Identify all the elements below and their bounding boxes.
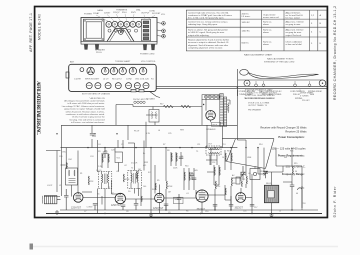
svg-text:VOL: VOL [117,158,121,160]
svg-text:Check calibration: Check calibration [286,41,303,44]
alignment table grid [186,10,326,51]
tube V5 top [130,21,136,27]
resistor R20 [102,154,103,162]
svg-text:to B minus with 1000 ohm per v: to B minus with 1000 ohm per volt meter. [68,102,106,105]
resistor R1 [66,163,68,169]
resistor R17 [176,153,177,161]
svg-text:completing alignment of the re: completing alignment of the receiver. [188,46,223,49]
svg-text:C17: C17 [254,207,257,209]
svg-text:L5: L5 [279,211,281,213]
svg-text:OSC: OSC [62,152,67,154]
socket V6 bottom [139,67,146,74]
power transformer (top view) [84,19,105,41]
wire: second bottom bus [60,209,318,211]
socket V2 bottom [102,67,109,74]
svg-text:T2: T2 [131,168,133,170]
svg-text:C16: C16 [243,211,246,213]
svg-text:22K: 22K [90,181,94,183]
socket V1 bottom [87,67,94,74]
wire: horizontal connectors [44,97,302,210]
control shafts [157,22,165,39]
svg-text:5: 5 [311,43,313,45]
chassis foot 2 [95,44,99,50]
svg-text:10: 10 [222,157,224,159]
svg-text:STRINGING OF THE DIAL CORD: STRINGING OF THE DIAL CORD [264,61,295,64]
svg-text:R12: R12 [260,171,263,173]
svg-text:Line voltage 117 AC. Volume co: Line voltage 117 AC. Volume control maxi… [62,105,105,108]
svg-text:C4: C4 [98,144,100,146]
svg-text:2.2M: 2.2M [98,166,103,168]
svg-text:1,2: 1,2 [311,15,315,17]
svg-text:12SA7GT: 12SA7GT [71,206,82,209]
power unit iron core block [264,185,278,202]
capacitor C10 [229,196,234,210]
svg-text:1400 KC: 1400 KC [242,31,251,33]
svg-text:SOCKET: SOCKET [152,13,161,15]
svg-text:alignment. Seal all trimmers w: alignment. Seal all trimmers with wax af… [188,44,228,47]
svg-text:100: 100 [143,186,146,188]
svg-text:R5: R5 [157,180,159,182]
svg-text:RADIO ALIGNMENT CHART: RADIO ALIGNMENT CHART [244,54,273,57]
tube V3 12SQ7 det-avc [155,193,164,202]
svg-text:35Z5: 35Z5 [131,12,137,14]
svg-text:* AS NOTED ON: * AS NOTED ON [89,97,105,100]
trimmer C row bottom [86,83,149,89]
svg-text:12SQ7GT: 12SQ7GT [153,208,164,210]
gang condenser bracket [107,29,134,42]
oscillator coil L2 [66,168,78,185]
svg-text:12SA7: 12SA7 [93,12,100,15]
svg-text:C3 R2: C3 R2 [126,79,133,81]
chassis apron edge [81,42,157,45]
variable capacitor C2 [263,171,268,178]
tube V3 top [118,21,124,27]
svg-text:TRIMMERS: TRIMMERS [116,9,128,11]
tube V4 top [124,21,130,27]
svg-text:output while adjusting.: output while adjusting. [188,34,210,37]
svg-text:R13: R13 [227,151,230,153]
svg-text:TO GANG: TO GANG [146,98,155,101]
scan artifact bottom strip [30,246,338,248]
pulley right [319,80,326,87]
svg-text:C: C [320,32,322,34]
svg-text:Power Consumption:: Power Consumption: [278,135,304,139]
svg-text:C9: C9 [168,212,170,214]
chassis foot 4 [151,44,155,50]
svg-text:C2: C2 [111,193,113,195]
IF transformer T2 [128,171,142,189]
svg-text:increase in output is obtained: increase in output is obtained. Recheck … [188,41,229,44]
svg-text:35L6: 35L6 [122,12,127,14]
svg-text:D: D [320,43,322,45]
chassis foot 1 [84,44,88,50]
capacitor C13 [103,148,108,158]
speaker notes text [245,89,278,112]
svg-text:OUTPUT TRANS. T4: OUTPUT TRANS. T4 [248,104,268,107]
svg-text:455: 455 [143,165,146,167]
ground symbol G2 [149,214,153,218]
svg-text:GANG: GANG [97,9,104,12]
tube V6 12SQ7 1st audio [206,111,216,121]
svg-text:L2: L2 [59,185,61,187]
capacitor C5 [121,205,126,210]
variable capacitor C1 [241,166,246,180]
svg-text:Same as: Same as [263,30,271,32]
svg-text:3: 3 [311,23,313,25]
wire: AVC rail [61,124,237,126]
svg-text:OSC: OSC [68,159,73,161]
svg-text:FIELD: FIELD [266,183,272,185]
tube V6 top [136,21,142,27]
svg-text:DRIVE SHAFT: DRIVE SHAFT [300,92,314,95]
svg-text:.01: .01 [186,193,189,195]
tube V5 35Z5 rectifier [236,193,246,203]
label V4 [174,197,184,204]
svg-text:B+: B+ [143,153,146,155]
svg-text:R6: R6 [186,211,188,213]
svg-text:40: 40 [296,193,298,195]
wire: bottom B- bus [46,213,322,215]
svg-text:.005: .005 [194,170,198,172]
dial labels below [239,90,322,100]
svg-text:.02: .02 [124,165,127,167]
svg-text:OUTPUT: OUTPUT [141,13,150,15]
svg-text:within 20 percent. Resistor va: within 20 percent. Resistor values in oh… [66,110,105,113]
svg-text:Receiver with Record Changer 3: Receiver with Record Changer 35 Watts [260,126,307,130]
dial cord loop [240,69,249,75]
chassis outline (top view) [81,18,157,43]
resistor R10 [227,103,229,113]
svg-text:line plug. One side of line is: line plug. One side of line is connected [70,118,105,121]
svg-text:470K: 470K [168,186,173,188]
svg-text:POWER CORD: POWER CORD [140,54,155,56]
svg-text:470K: 470K [125,179,130,181]
resistor R21 [108,154,109,162]
trimmer row [108,29,138,32]
label speaker plug [95,49,155,56]
svg-text:Adjust trimmers: Adjust trimmers [286,12,301,15]
tube V1 top [106,21,112,27]
svg-text:C25: C25 [168,133,171,135]
svg-text:PM SPEAKER: PM SPEAKER [248,109,262,112]
resistor R28 on heater rail [181,105,191,108]
dial drum [119,30,124,35]
svg-text:3 TURNS: 3 TURNS [300,95,309,97]
resistor R12 [241,181,243,187]
svg-text:T1: T1 [108,187,110,189]
svg-text:R9: R9 [233,183,235,185]
svg-text:CORD: CORD [149,10,156,12]
component value labels [47,144,305,214]
svg-text:POWER: POWER [84,14,92,16]
svg-text:R1: R1 [80,173,82,175]
svg-text:47K: 47K [104,151,108,153]
svg-text:Repeat adjustments 3 and 4 unt: Repeat adjustments 3 and 4 until no furt… [188,39,229,42]
resistor R4 [136,171,138,179]
dial caption [264,58,295,64]
capacitor C21 [192,178,197,180]
svg-text:C1: C1 [243,179,245,181]
antenna terminal [80,68,84,72]
svg-text:OUT: OUT [208,144,213,146]
svg-text:35Z5GT: 35Z5GT [235,207,244,209]
svg-text:RECORD CHANGER, Drawing No.RCD: RECORD CHANGER, Drawing No.RCD.CH.13-1,2 [333,6,337,100]
svg-text:35W: 35W [144,162,148,164]
resistor R9 [292,166,294,174]
svg-text:C23: C23 [111,150,114,152]
svg-text:ACROSS TERMINALS 1 AND 2: ACROSS TERMINALS 1 AND 2 [245,97,274,100]
chassis outline (bottom view) [69,64,157,91]
loop antenna L1 [42,196,60,204]
phono socket P1 [202,95,220,100]
capacitor C14 [190,172,195,180]
svg-text:above: above [263,24,270,26]
labels above bottom view [70,60,157,64]
svg-text:AFFILIATED RETAILERS, INC.: AFFILIATED RETAILERS, INC. [35,81,40,135]
svg-text:On DC if set fails to play rev: On DC if set fails to play reverse the [72,116,106,119]
svg-text:2nd I.F.: 2nd I.F. [131,163,138,165]
resistor R11 box [236,177,240,184]
svg-text:R3: R3 [98,151,100,153]
svg-text:.05: .05 [248,173,251,175]
resistor R13 [155,183,156,190]
svg-text:T5: T5 [196,151,198,153]
svg-text:RADIO ALIGNMENT POINTS: RADIO ALIGNMENT POINTS [267,58,294,61]
svg-text:R15: R15 [290,151,293,153]
resistor R27 on heater rail [164,105,174,108]
svg-text:BOTTOM VIEW OF CHASSIS: BOTTOM VIEW OF CHASSIS [82,93,111,96]
socket V4 bottom [119,67,126,74]
svg-text:C8: C8 [126,211,128,213]
svg-text:All voltages measured from soc: All voltages measured from socket termin… [64,100,104,103]
svg-text:4: 4 [311,32,313,34]
svg-text:CONV.: CONV. [87,207,94,209]
svg-text:Connect high side of test osc.: Connect high side of test osc. thru .05 … [188,12,229,15]
svg-text:6.3V: 6.3V [146,133,151,135]
capacitor C11 [250,205,255,207]
svg-text:12SK7: 12SK7 [104,12,111,14]
label V6 box [211,122,220,126]
svg-text:to B minus: use isolation tran: to B minus: use isolation transformer. [71,121,105,124]
tube V2 12SK7 IF amp [115,193,125,203]
capacitor C7 [164,204,169,210]
svg-text:PLUG: PLUG [96,52,102,54]
svg-text:PULLEY: PULLEY [302,100,310,102]
resistor R16 [171,153,172,161]
svg-text:Output meter: Output meter [263,14,276,17]
svg-text:R7: R7 [163,144,165,146]
svg-text:2G: 2G [128,191,131,193]
tube V1 12SA7 converter [73,193,83,203]
svg-text:TUNING SHAFT: TUNING SHAFT [115,60,131,63]
svg-text:12SQ7: 12SQ7 [113,12,120,14]
svg-text:across voice coil: across voice coil [263,17,279,19]
idler pulleys [255,84,311,87]
svg-text:C11: C11 [197,144,200,146]
resistor R3 [123,174,125,182]
svg-text:©John F. Rider: ©John F. Rider [333,186,337,218]
svg-text:Same as above. Set gang and di: Same as above. Set gang and dial pointer [188,29,228,32]
svg-text:VOICE COIL 3.2 OHMS: VOICE COIL 3.2 OHMS [248,102,270,104]
capacitor C4 [93,204,98,211]
capacitor C19 [179,157,184,159]
svg-text:VOL: VOL [161,14,166,16]
power cord exit [131,89,160,97]
svg-text:CONNECT TO SPEAKER SOCKET: CONNECT TO SPEAKER SOCKET [245,91,278,94]
svg-text:1st I.F.: 1st I.F. [96,169,102,172]
resistor R26 [225,188,226,195]
pulley left [244,80,250,86]
resistor R19 [189,172,190,180]
svg-text:to 1400 KC signal. Rock gang f: to 1400 KC signal. Rock gang for max. [188,31,225,34]
svg-text:on gang to max.: on gang to max. [286,23,302,26]
svg-text:12SK7GT: 12SK7GT [111,205,122,207]
svg-text:Frequency Range:: Frequency Range: [282,172,305,176]
svg-text:above: above [263,32,270,34]
ground symbol G1 [55,210,59,214]
svg-text:C7: C7 [84,211,86,213]
wire: chassis-to-dial link upper [157,85,238,87]
resistor R2 [88,176,90,185]
svg-text:above: above [263,44,270,46]
svg-text:SPKR SOCKET: SPKR SOCKET [85,79,100,81]
svg-text:600 KC: 600 KC [242,43,250,45]
svg-text:R14: R14 [259,144,262,146]
svg-text:C24: C24 [90,156,93,158]
svg-text:radiating loop. Gang fully ope: radiating loop. Gang fully open. [188,23,218,26]
resistor R25 [231,153,232,161]
IF transformer T1 [98,172,112,189]
svg-text:1620 KC: 1620 KC [242,22,251,24]
svg-text:220K: 220K [173,168,178,170]
svg-text:WITH PLUG. REMOVE JUMPER: WITH PLUG. REMOVE JUMPER [245,95,275,97]
svg-text:SPEAKER: SPEAKER [206,128,216,131]
svg-text:thru .1 mfd. cond. Set gang fu: thru .1 mfd. cond. Set gang fully open. [188,17,225,20]
svg-text:T3: T3 [181,156,183,158]
wire: chassis-to-dial link lower [157,87,238,89]
capacitor C9 [213,205,218,211]
svg-text:MODEL B-240: MODEL B-240 [38,14,42,40]
svg-text:for max. output: for max. output [286,17,301,20]
svg-text:R6 C12 T2: R6 C12 T2 [112,79,123,81]
tube V2 top [112,21,118,27]
capacitor C8 [177,194,182,210]
svg-text:12K: 12K [212,162,216,164]
gang trimmer box [250,167,260,180]
svg-text:35L6: 35L6 [212,124,218,126]
resistor R8 [246,176,248,184]
svg-text:I.F. trans.: I.F. trans. [242,15,251,18]
svg-text:C20: C20 [59,156,62,158]
wire: vertical drops left section [57,90,292,214]
capacitor C6 [134,199,139,210]
svg-text:R4: R4 [152,189,154,191]
dial cord run [248,73,318,79]
electrolytic C15 [298,186,305,208]
volume control box [115,152,123,163]
socket V3 bottom [110,67,117,74]
svg-text:AFF. RET. PAGE 17-1: AFF. RET. PAGE 17-1 [29,13,33,52]
svg-text:Adjust ant. trimmer: Adjust ant. trimmer [286,29,304,32]
terminal strip [142,19,151,41]
svg-text:AC: AC [232,174,235,177]
caption bottom view [82,93,111,96]
dial rails [238,69,327,96]
wire: heater rail top [133,106,202,108]
output transformer T4 [220,94,227,127]
tuning gang frame [223,139,275,169]
svg-text:455 KC: 455 KC [242,14,250,16]
svg-text:VOL CONTROL: VOL CONTROL [141,61,157,63]
svg-text:Power Requirements:: Power Requirements: [278,154,305,158]
svg-text:C6: C6 [97,194,99,196]
capacitor C22 [90,134,95,136]
dial leader ticks [248,81,310,91]
svg-text:OSC COIL C20: OSC COIL C20 [135,79,150,81]
svg-text:output. Recheck.: output. Recheck. [286,34,302,37]
svg-text:LINE: LINE [247,157,252,159]
resistor R6 [215,181,217,189]
tube V4 35L6 output [196,190,208,202]
resistor R22 [214,167,215,175]
resistor R24 [225,153,226,161]
svg-text:B: B [320,23,322,25]
resistor R23 [219,167,220,175]
svg-text:gang closed, no signal. Voltag: gang closed, no signal. Voltages should … [64,108,104,111]
mid gap labels [134,98,185,136]
coupling transformer T3 [206,146,221,155]
top view callout labels [84,9,166,16]
svg-text:C5: C5 [121,144,123,146]
svg-text:C14 R9: C14 R9 [74,79,82,81]
page border frame [35,7,328,218]
svg-text:Same as: Same as [263,22,271,24]
svg-text:L6: L6 [158,130,160,132]
svg-text:IF EXTRA SPEAKER IS USED: IF EXTRA SPEAKER IS USED [245,89,273,92]
svg-text:1M: 1M [138,169,141,171]
socket V5 bottom [129,67,136,74]
svg-text:A: A [320,14,322,17]
svg-text:L4 C9: L4 C9 [103,79,109,81]
resistor R5 [166,181,168,189]
svg-text:R8: R8 [167,150,169,152]
svg-text:Adjust osc. trimmer: Adjust osc. trimmer [286,21,305,24]
alignment table cell text [188,12,322,50]
frequency range text block [260,126,307,176]
svg-text:Connect test osc. to loop ante: Connect test osc. to loop antenna using … [188,21,228,24]
svg-text:R10: R10 [185,166,188,168]
svg-text:at low end of dial: at low end of dial [286,43,303,46]
middle label band [74,79,154,81]
svg-text:Receiver 25 Watts: Receiver 25 Watts [285,129,307,133]
svg-text:R1: R1 [151,79,154,81]
svg-text:C13: C13 [222,144,225,146]
oscillator padder box [149,110,159,123]
resistor R14 [141,196,142,202]
svg-text:HTR: HTR [180,130,185,132]
chassis foot 3 [143,44,147,50]
pin jack strip J1 [134,101,145,103]
svg-text:LOOP: LOOP [47,185,53,187]
capacitor C12 [290,182,295,190]
callout leader lines [96,14,155,22]
svg-text:.05: .05 [116,171,119,173]
wire: B+ rail [61,147,238,149]
svg-text:150: 150 [217,186,220,188]
resistor R7 [231,178,233,186]
svg-text:PILOT: PILOT [134,131,140,133]
svg-text:R17: R17 [160,104,163,106]
